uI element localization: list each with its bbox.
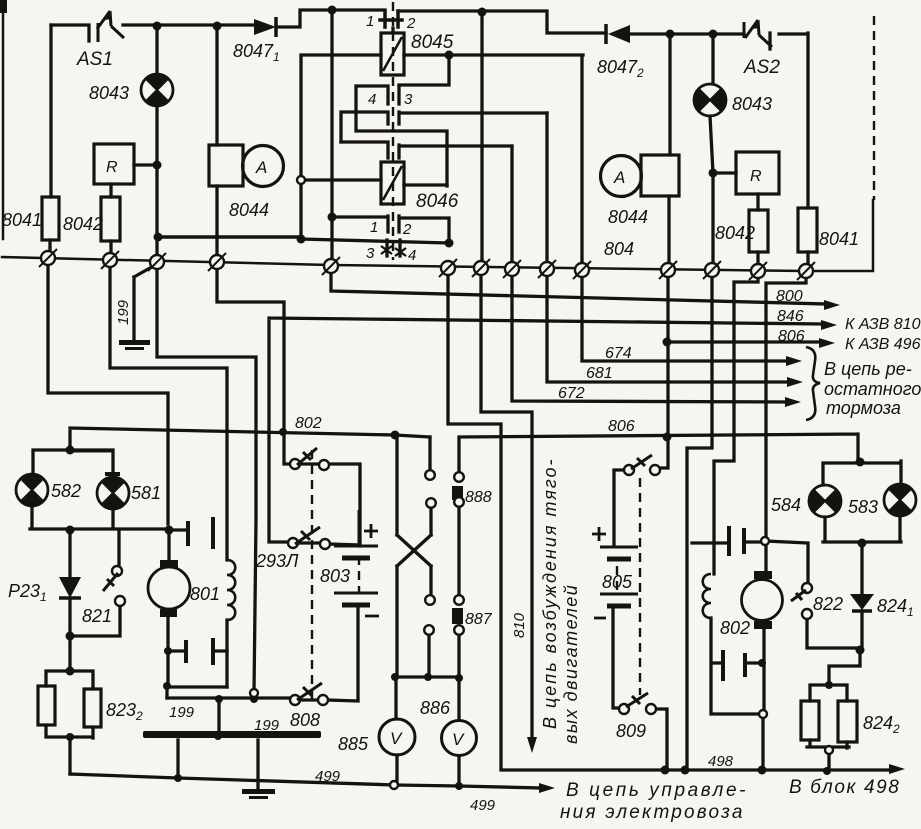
svg-text:293Л: 293Л (255, 551, 299, 571)
svg-text:8046: 8046 (416, 191, 459, 212)
svg-text:1: 1 (370, 219, 378, 236)
svg-text:В цепь ре-: В цепь ре- (824, 359, 912, 379)
svg-text:A: A (255, 158, 267, 177)
svg-text:К АЗВ 810: К АЗВ 810 (845, 316, 921, 333)
svg-text:4: 4 (368, 91, 376, 108)
svg-text:582: 582 (51, 481, 81, 501)
svg-text:4: 4 (408, 247, 416, 264)
svg-text:800: 800 (776, 288, 803, 305)
svg-text:AS1: AS1 (76, 49, 113, 70)
svg-text:8042: 8042 (715, 223, 755, 243)
svg-text:1: 1 (366, 13, 374, 30)
svg-text:803: 803 (320, 566, 350, 586)
svg-text:80472: 80472 (597, 57, 644, 80)
svg-text:885: 885 (338, 734, 369, 754)
svg-text:805: 805 (602, 572, 633, 592)
svg-text:8043: 8043 (89, 83, 129, 103)
svg-text:802: 802 (295, 415, 322, 432)
svg-text:809: 809 (616, 721, 646, 741)
svg-text:808: 808 (290, 710, 320, 730)
svg-text:199: 199 (115, 299, 132, 325)
svg-text:ния электровоза: ния электровоза (560, 802, 745, 823)
svg-text:681: 681 (586, 365, 613, 382)
svg-text:2: 2 (406, 15, 416, 32)
svg-text:2: 2 (402, 221, 412, 238)
svg-text:846: 846 (777, 308, 804, 325)
svg-text:674: 674 (605, 345, 632, 362)
svg-text:584: 584 (771, 495, 801, 515)
svg-text:К АЗВ 496: К АЗВ 496 (845, 336, 921, 353)
svg-text:8043: 8043 (732, 94, 772, 114)
svg-text:8044: 8044 (229, 200, 269, 220)
svg-text:8041: 8041 (2, 210, 42, 230)
svg-text:тормоза: тормоза (826, 398, 901, 418)
svg-text:V: V (452, 730, 465, 749)
svg-text:8041: 8041 (819, 229, 859, 249)
svg-text:В блок 498: В блок 498 (789, 777, 900, 798)
svg-text:581: 581 (131, 483, 161, 503)
svg-text:499: 499 (315, 768, 341, 785)
svg-text:801: 801 (190, 584, 220, 604)
svg-text:199: 199 (169, 704, 195, 721)
svg-text:887: 887 (465, 611, 493, 628)
svg-text:822: 822 (813, 594, 843, 614)
svg-text:остатного: остатного (824, 379, 921, 399)
svg-text:199: 199 (254, 717, 280, 734)
svg-text:499: 499 (470, 797, 496, 814)
svg-text:R: R (106, 159, 118, 176)
svg-text:804: 804 (604, 239, 634, 259)
svg-text:AS2: AS2 (743, 57, 780, 78)
svg-text:806: 806 (608, 418, 635, 435)
svg-text:810: 810 (511, 612, 528, 638)
svg-text:R: R (750, 168, 762, 185)
svg-text:3: 3 (366, 245, 375, 262)
svg-text:821: 821 (82, 606, 112, 626)
svg-text:80471: 80471 (233, 41, 280, 64)
svg-text:3: 3 (404, 91, 413, 108)
svg-text:806: 806 (778, 328, 805, 345)
svg-text:802: 802 (720, 618, 750, 638)
svg-text:498: 498 (708, 753, 734, 770)
svg-text:672: 672 (558, 385, 585, 402)
svg-text:888: 888 (465, 489, 492, 506)
svg-text:A: A (613, 168, 625, 187)
svg-text:8042: 8042 (63, 214, 103, 234)
svg-text:В цепь возбуждения тяго-: В цепь возбуждения тяго- (540, 457, 560, 729)
svg-text:583: 583 (848, 497, 878, 517)
svg-text:886: 886 (420, 698, 451, 718)
svg-text:вых двигателей: вых двигателей (561, 584, 581, 744)
svg-text:8044: 8044 (608, 207, 648, 227)
svg-text:В цепь управле-: В цепь управле- (566, 780, 748, 801)
svg-text:V: V (390, 729, 403, 748)
svg-text:8045: 8045 (411, 32, 454, 53)
